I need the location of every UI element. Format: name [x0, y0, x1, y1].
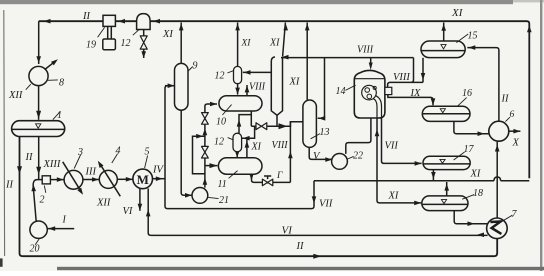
seal pot 12 on top line — [137, 14, 151, 30]
label leader XII — [26, 84, 31, 90]
wire separator 12b bottoms into drum 11 — [236, 152, 238, 158]
wire reactor 14 left dip tube down to XI feed of drum 18 — [377, 118, 421, 203]
svg-text:12: 12 — [215, 71, 225, 82]
wire IV: mixer 5 discharge to riser junction — [153, 178, 166, 180]
svg-text:18: 18 — [473, 188, 483, 199]
svg-text:16: 16 — [462, 88, 472, 99]
wire drum 10 bottom nozzle — [250, 111, 252, 126]
arrows on top line into 19 and 12 — [118, 19, 125, 24]
wire VIII collector into reactor 14 nozzle — [388, 58, 423, 88]
pump 21 — [192, 188, 208, 204]
svg-text:12: 12 — [214, 137, 224, 148]
svg-text:21: 21 — [219, 195, 229, 206]
drum 17 — [423, 156, 470, 169]
column 9 — [175, 63, 189, 110]
wire valve bypass loop — [193, 136, 205, 174]
label leader 13 — [311, 134, 320, 139]
svg-text:14: 14 — [336, 86, 346, 97]
wire drum 16 bottoms into compressor 6 — [454, 122, 489, 134]
wire flash line drum 10 through valve into column 13 — [251, 122, 303, 127]
label leader 20 — [35, 238, 39, 245]
label leader 17 — [454, 152, 465, 160]
wire II: drum 1 left outlet down and along bottom to cooler 7 — [20, 136, 498, 256]
label leader 4 — [112, 154, 118, 163]
valve upper on pump 21 line — [202, 113, 209, 125]
valve lower on pump 21 line — [202, 146, 209, 158]
wire VII arrow down onto collector — [312, 196, 317, 203]
wire VIII feed into separator 12a — [243, 71, 271, 73]
label leader 8 — [48, 79, 58, 81]
svg-text:9: 9 — [193, 61, 198, 72]
hop over circle6-circle7 line — [494, 177, 501, 181]
wire condenser 8 outlet down into drum 1 — [38, 86, 40, 120]
svg-text:M: M — [137, 172, 149, 187]
wire exchanger 4 to mixer 5 — [117, 178, 132, 180]
wire column 13 bottoms V into pump 22 — [309, 147, 332, 159]
label leader 9 — [188, 67, 193, 72]
label leader 6 — [505, 117, 510, 121]
reactor 14 with dome — [354, 70, 385, 118]
wire column 9 bottoms to pump 21 — [181, 110, 192, 195]
drum 10 — [219, 96, 262, 111]
svg-text:II: II — [25, 152, 33, 163]
drum 15 — [421, 41, 465, 58]
wire riser XI from drum 15 top to bus — [443, 23, 445, 42]
svg-text:8: 8 — [59, 78, 64, 89]
wire II from compressor 6 up into drum 15 — [467, 48, 499, 122]
arrow up on right riser near top corner — [527, 25, 532, 32]
svg-text:I: I — [62, 215, 67, 226]
drum 11 — [218, 158, 262, 174]
svg-text:XI: XI — [289, 77, 300, 88]
reactor 14 side nozzle box — [385, 87, 392, 94]
svg-text:VIII: VIII — [272, 140, 289, 151]
wire pump 21 discharge up through valves to drum 10 — [205, 104, 217, 188]
wire filter 2 to exchanger 3 — [51, 179, 64, 181]
svg-text:II: II — [5, 180, 13, 191]
wire top bus II/XI with right riser down to line VIII/XI collector — [39, 21, 530, 178]
svg-text:XI: XI — [269, 38, 280, 49]
mixer 5 with M — [133, 169, 153, 189]
exchanger 3 cross-flow diagonal XIII — [63, 162, 82, 193]
svg-text:XII: XII — [96, 198, 111, 209]
svg-text:5: 5 — [145, 147, 150, 158]
drum 16 — [422, 106, 470, 121]
svg-text:XI: XI — [241, 39, 252, 49]
exchanger 4 cross-flow diagonal XII — [100, 163, 121, 196]
wire drum 15 bottoms down to line VIII — [422, 58, 424, 83]
condenser 8 outlet diagonal arrow — [45, 61, 56, 70]
valve on flash line — [256, 123, 267, 130]
label leader 3 — [74, 155, 81, 169]
separator 12a — [234, 66, 242, 83]
condenser 8 — [29, 66, 48, 85]
svg-text:VIII: VIII — [249, 82, 266, 93]
svg-text:1: 1 — [57, 110, 62, 121]
exchanger 3 — [64, 170, 83, 189]
wire IX from nozzle to drum 16 — [388, 95, 433, 106]
svg-text:12: 12 — [121, 38, 131, 49]
wire riser XI from column 13 top to bus — [306, 23, 308, 101]
svg-text:19: 19 — [86, 40, 96, 51]
svg-text:13: 13 — [320, 127, 330, 138]
wire drum 1 centre outlet down to junction with pump 20 line — [38, 136, 40, 179]
label leader 18 — [462, 195, 474, 200]
wire pump 22 discharge up into reactor 14 bottom — [346, 118, 371, 154]
svg-text:10: 10 — [216, 117, 226, 128]
label leader 14 — [345, 85, 355, 90]
svg-text:3: 3 — [77, 147, 83, 158]
svg-text:VII: VII — [385, 141, 399, 152]
label leader 12 seal pot — [133, 30, 139, 35]
svg-text:XIII: XIII — [43, 159, 61, 170]
svg-text:II: II — [501, 94, 509, 105]
wire separator 12a bottoms down into drum 10 — [237, 84, 239, 95]
svg-text:VIII: VIII — [357, 45, 374, 56]
svg-text:Г: Г — [276, 171, 283, 181]
wire riser to column 9 and VII collector line — [165, 86, 314, 209]
svg-text:XI: XI — [162, 29, 173, 40]
drum 18 — [422, 196, 468, 211]
label leader 12a — [227, 71, 233, 73]
wire cooler 7 to compressor 6 — [496, 142, 498, 218]
svg-text:IX: IX — [410, 88, 421, 99]
svg-text:VIII: VIII — [393, 72, 410, 83]
svg-text:20: 20 — [30, 244, 40, 255]
svg-text:XI: XI — [451, 7, 464, 19]
wire collector line from VII arrow to right riser with hop — [314, 180, 529, 182]
bottom page-edge bar — [57, 267, 544, 270]
svg-text:XI: XI — [251, 142, 262, 153]
label leader 10 — [222, 105, 231, 115]
svg-text:XII: XII — [8, 90, 23, 101]
svg-text:XI: XI — [388, 191, 399, 202]
cooler 7 with zigzag — [487, 218, 508, 239]
wire feed arrow into column 9 — [165, 85, 175, 87]
pump 20 — [30, 221, 47, 238]
svg-text:IV: IV — [152, 165, 164, 176]
label leader 11 — [229, 171, 238, 179]
valve G with stem — [262, 179, 272, 186]
svg-text:17: 17 — [464, 144, 475, 155]
wire riser from drum 11 top joining 12b feed (XI) — [246, 140, 248, 159]
label leader 22 — [348, 156, 354, 159]
left page border line — [3, 10, 6, 256]
wire drop into separator 12b right side — [242, 126, 255, 138]
regulator 19 stem and lower box — [108, 26, 112, 39]
wire vapor link separator 12b to drum 10 — [239, 115, 251, 134]
wire vent line and valve under seal pot 12 — [143, 30, 145, 58]
top page-edge grey bar — [0, 0, 513, 4]
wire reactor 14 right tube to drum 17 feed — [382, 118, 422, 163]
label leader 2 — [44, 186, 46, 193]
compressor 6 — [489, 121, 509, 141]
reactor 14 burner circle detail — [362, 85, 377, 100]
right page-edge grey line — [540, 0, 542, 271]
label leader 19 — [98, 27, 105, 37]
wire drum 18 bottoms to cooler 7 — [454, 211, 487, 224]
wire vapor return drum 10 to separator 12a — [246, 85, 248, 96]
svg-text:2: 2 — [40, 195, 45, 206]
separator 12b — [233, 133, 242, 152]
wire X product out of compressor 6 — [509, 130, 521, 132]
label leader 16 — [457, 98, 466, 107]
duct: narrow double-wall downcomer — [271, 57, 282, 126]
label leader 15 — [456, 34, 468, 43]
exchanger 4 — [99, 170, 117, 188]
svg-text:II: II — [296, 241, 304, 252]
bottom-left page-edge mark — [0, 258, 3, 266]
wire VI return from cooler 7 up into mixer 5 — [148, 189, 487, 236]
svg-text:22: 22 — [353, 151, 363, 162]
svg-text:VI: VI — [282, 225, 294, 237]
column 13 — [303, 100, 317, 147]
label leader 12b — [228, 138, 233, 140]
svg-text:X: X — [512, 138, 520, 149]
svg-text:15: 15 — [468, 31, 478, 42]
svg-text:6: 6 — [510, 110, 515, 120]
wire riser XI from duct junction to bus — [283, 23, 286, 57]
wire drum 17 bottoms drop — [432, 170, 434, 181]
pump 22 — [332, 154, 348, 170]
wire VIII header from right with left arrow into duct junction — [281, 57, 414, 59]
wire VI product out of mixer 5 — [139, 188, 141, 211]
wire I feed into pump 20 — [48, 228, 75, 230]
wire riser XI from column 9 top to bus — [180, 23, 182, 64]
svg-text:II: II — [82, 11, 90, 22]
reactor 14 internal J-tube — [373, 96, 381, 118]
wire branch from pump 21 line into drum 11 — [205, 165, 218, 167]
label leader 5 — [145, 156, 148, 169]
label leader 1 — [53, 112, 60, 120]
svg-text:4: 4 — [116, 146, 121, 157]
wire pump 20 discharge up to filter 2 — [33, 180, 42, 222]
svg-text:VII: VII — [319, 199, 333, 210]
svg-text:III: III — [85, 167, 97, 178]
label leader 21 — [208, 197, 218, 198]
drum 1 (reflux drum) — [12, 121, 65, 137]
wire VIII branch down into column 13 right side — [318, 58, 325, 119]
wire exchanger 3 to exchanger 4 (III) — [83, 179, 99, 181]
wire riser XI from separator 12a top to bus — [237, 23, 239, 67]
wire drum 18 top riser — [446, 182, 448, 196]
svg-text:11: 11 — [218, 179, 227, 190]
filter 2 — [42, 176, 50, 184]
wire top-left elbow II down into condenser 8 — [38, 21, 40, 64]
svg-text:XI: XI — [470, 169, 481, 180]
wire drum 11 bottoms through valve G and riser into column 13 — [252, 122, 291, 183]
svg-text:VI: VI — [123, 206, 133, 217]
regulator box 19 on top line — [103, 15, 115, 26]
wire VIII down-arrow from header into reactor 14 dome — [370, 58, 372, 64]
label leader 7 — [500, 215, 513, 222]
